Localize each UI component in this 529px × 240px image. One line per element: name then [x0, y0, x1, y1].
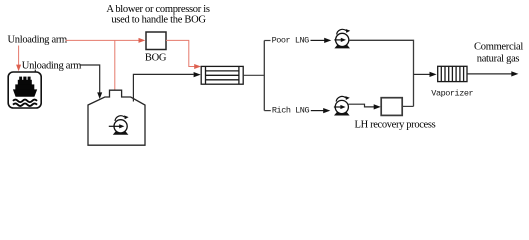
wire: poor LNG to pump arrow: [311, 39, 325, 41]
pump P3 (rich LNG pump): [334, 96, 350, 115]
ship icon: [13, 77, 37, 106]
svg-text:Rich LNG: Rich LNG: [272, 106, 310, 116]
svg-text:A blower or compressor is: A blower or compressor is: [106, 4, 210, 15]
vaporizer: [438, 66, 467, 81]
svg-text:Unloading arm: Unloading arm: [22, 60, 82, 71]
wire: red arrow from red label down to ship: [18, 46, 20, 66]
wire: poor pump outlet right and down to collector: [349, 40, 414, 106]
arrowhead black into tank roof: [97, 92, 102, 99]
svg-text:Poor LNG: Poor LNG: [272, 35, 310, 45]
arrowhead into vaporizer: [430, 72, 437, 77]
label: Commercial natural gas: [474, 42, 523, 65]
svg-text:LH recovery process: LH recovery process: [355, 119, 436, 130]
wire: tank discharge up and right to recondenser: [133, 74, 193, 101]
svg-text:Commercial: Commercial: [474, 42, 523, 53]
in-tank pump P1: [109, 115, 129, 134]
wire: collector to vaporizer arrow: [414, 73, 430, 75]
wire: rich LNG branch line: [264, 110, 271, 112]
svg-text:natural gas: natural gas: [477, 53, 520, 64]
wire: branch vertical line: [263, 41, 265, 111]
wire: rich pump outlet jog to LH recovery box: [348, 104, 374, 107]
arrowhead red into recondenser top-left: [194, 64, 201, 69]
arrowhead red onto ship box: [16, 65, 21, 72]
BOG blower box: [146, 32, 166, 50]
svg-text:used to handle the BOG: used to handle the BOG: [111, 15, 206, 26]
wire: poor LNG branch line: [264, 40, 270, 42]
arrowhead black into recondenser: [194, 72, 201, 77]
wire: red from BOG blower to recondenser: [166, 40, 195, 66]
pump P2 (poor LNG send-out pump): [334, 29, 350, 48]
wire: rich LNG to pump arrow: [311, 110, 324, 112]
wire: black from label right then down to tank: [80, 65, 100, 93]
wire: stub from ship box up to black label: [34, 70, 36, 72]
svg-text:BOG: BOG: [145, 52, 167, 63]
LNG carrier ship box: [8, 72, 41, 108]
arrowhead into rich pump: [323, 108, 330, 113]
LH recovery process box: [381, 98, 402, 116]
wire: vaporizer outlet to commercial gas arrow: [467, 73, 512, 75]
wire: recondenser outlet to branch tee: [243, 74, 264, 76]
svg-text:Unloading arm: Unloading arm: [8, 34, 68, 45]
wire: red vertical branch down to tank neck: [114, 40, 116, 89]
LNG storage tank: [88, 90, 145, 145]
arrowhead into poor pump: [324, 38, 331, 43]
recondenser heat exchanger: [201, 66, 243, 84]
arrowhead into LH recovery box: [374, 104, 381, 109]
annotation text "A blower or compressor is used to handle the BOG": [106, 4, 210, 26]
wire: LH recovery outlet to collector: [402, 105, 413, 107]
arrowhead red into BOG box: [139, 38, 146, 43]
svg-text:Vaporizer: Vaporizer: [431, 89, 473, 99]
wire: red horizontal from red label to BOG blower: [66, 39, 140, 41]
arrowhead commercial natural gas: [511, 71, 518, 76]
